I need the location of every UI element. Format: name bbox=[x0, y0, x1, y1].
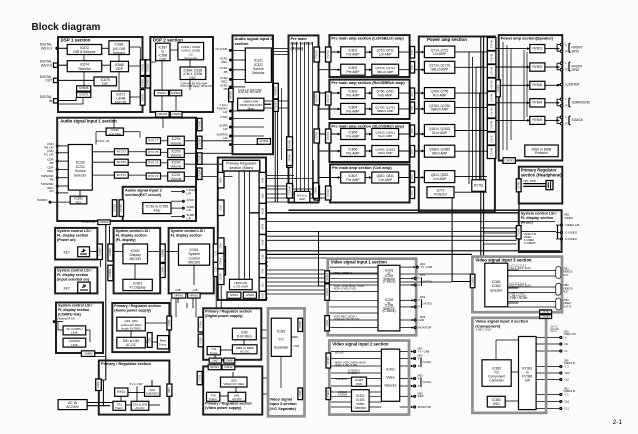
svg-text:CD: CD bbox=[49, 189, 53, 193]
svg-text:CN635: CN635 bbox=[140, 93, 144, 102]
svg-text:HD SIG: HD SIG bbox=[335, 352, 344, 355]
svg-text:DSP: DSP bbox=[160, 57, 167, 61]
svg-text:L+5B T, L+5x7: L+5B T, L+5x7 bbox=[476, 329, 492, 332]
svg-text:FL display section: FL display section bbox=[171, 233, 202, 237]
svg-text:CN741: CN741 bbox=[489, 53, 493, 62]
svg-text:CN281: CN281 bbox=[197, 120, 201, 129]
svg-text:SBLch AMP: SBLch AMP bbox=[431, 68, 448, 72]
svg-text:Y 1: Y 1 bbox=[565, 392, 570, 396]
svg-text:IL/TE A/DR: IL/TE A/DR bbox=[234, 285, 249, 289]
svg-text:IVR204: IVR204 bbox=[157, 112, 167, 116]
svg-text:System control LSI /: System control LSI / bbox=[57, 269, 91, 273]
svg-text:Pre main amp section (Cch amp): Pre main amp section (Cch amp) bbox=[332, 166, 392, 170]
svg-text:System control LSI /: System control LSI / bbox=[58, 304, 92, 308]
svg-text:OSD: OSD bbox=[493, 402, 501, 406]
svg-text:VCR+S/N, HD VID S/V: VCR+S/N, HD VID S/V bbox=[334, 318, 360, 321]
svg-text:Primary Regulator: Primary Regulator bbox=[226, 161, 257, 165]
svg-text:L/R: L/R bbox=[223, 136, 228, 140]
svg-text:CN34: CN34 bbox=[198, 321, 202, 328]
svg-text:Selector: Selector bbox=[74, 173, 87, 177]
svg-text:(VCR2): (VCR2) bbox=[423, 380, 432, 384]
svg-text:Power amp section: Power amp section bbox=[427, 37, 467, 42]
svg-text:NP300: NP300 bbox=[325, 272, 329, 280]
svg-text:CN3: CN3 bbox=[219, 205, 223, 211]
svg-text:CN747: CN747 bbox=[489, 134, 493, 143]
svg-text:Volume: Volume bbox=[170, 165, 181, 169]
svg-text:CN35: CN35 bbox=[198, 337, 202, 344]
svg-text:Pre AMP: Pre AMP bbox=[346, 53, 360, 57]
svg-text:/SL1.2, SW.2, SL/W: /SL1.2, SW.2, SL/W bbox=[510, 267, 532, 270]
svg-text:Selector: Selector bbox=[113, 51, 126, 55]
svg-text:Selector: Selector bbox=[384, 384, 397, 388]
svg-text:RY273: RY273 bbox=[117, 150, 127, 154]
svg-text:SBRch AMP: SBRch AMP bbox=[431, 108, 449, 112]
svg-text:Audio 5V REG: Audio 5V REG bbox=[121, 327, 141, 331]
svg-text:P: P bbox=[418, 376, 420, 380]
svg-text:DSP 2 section: DSP 2 section bbox=[153, 38, 183, 43]
svg-text:P/0: P/0 bbox=[260, 268, 264, 272]
svg-text:DSP C/SR &amp; SPSL/SR: DSP C/SR &amp; SPSL/SR bbox=[181, 85, 212, 88]
svg-text:C38Q: C38Q bbox=[314, 187, 318, 194]
svg-text:L/R: L/R bbox=[187, 208, 191, 212]
svg-text:RY802: RY802 bbox=[532, 65, 542, 69]
svg-text:CN3AR: CN3AR bbox=[287, 186, 291, 195]
svg-text:8 V1 or SW: 8 V1 or SW bbox=[130, 383, 143, 386]
svg-text:TV / CAB: TV / CAB bbox=[421, 265, 433, 269]
svg-text:Selector: Selector bbox=[490, 288, 503, 292]
svg-text:DAC: DAC bbox=[190, 76, 197, 80]
svg-text:MICON: MICON bbox=[129, 257, 141, 261]
svg-text:AC-DC: AC-DC bbox=[126, 343, 137, 347]
svg-text:AC230V: AC230V bbox=[66, 405, 80, 409]
svg-text:NP061: NP061 bbox=[174, 293, 183, 297]
svg-text:CN613: CN613 bbox=[146, 78, 150, 87]
svg-text:3-4B: 3-4B bbox=[192, 289, 197, 292]
svg-text:Trans.: Trans. bbox=[210, 351, 219, 355]
svg-text:MONITOR: MONITOR bbox=[418, 325, 431, 329]
svg-text:Y 2: Y 2 bbox=[565, 364, 570, 368]
svg-text:SL/SL SR, SB L/SB R: SL/SL SR, SB L/SB R bbox=[238, 91, 261, 94]
svg-text:SBRch AMP: SBRch AMP bbox=[377, 109, 394, 113]
svg-text:NP320: NP320 bbox=[229, 91, 233, 99]
svg-text:P: P bbox=[418, 356, 420, 360]
svg-text:(Y Block): (Y Block) bbox=[383, 280, 396, 284]
svg-text:DIT: DIT bbox=[102, 82, 108, 86]
svg-text:L-508: L-508 bbox=[293, 345, 300, 348]
svg-text:P: P bbox=[418, 298, 420, 302]
svg-text:S.BACK: S.BACK bbox=[572, 118, 585, 122]
svg-text:MICON: MICON bbox=[115, 101, 127, 105]
svg-text:Amp: Amp bbox=[153, 209, 160, 213]
svg-text:NP888: NP888 bbox=[160, 249, 164, 257]
svg-text:CN38: CN38 bbox=[298, 390, 302, 397]
svg-text:C467: C467 bbox=[212, 358, 219, 362]
svg-text:CN742: CN742 bbox=[489, 66, 493, 75]
svg-text:IC401: IC401 bbox=[386, 367, 395, 371]
svg-text:SW3: SW3 bbox=[167, 387, 171, 393]
svg-text:RY805: RY805 bbox=[532, 118, 542, 122]
svg-text:(Front): (Front) bbox=[521, 221, 534, 225]
svg-text:(Power on): (Power on) bbox=[57, 238, 76, 242]
svg-text:Audio signal input 1 section: Audio signal input 1 section bbox=[60, 118, 117, 123]
svg-text:SUB REG: SUB REG bbox=[146, 391, 160, 395]
svg-text:Volume: Volume bbox=[170, 154, 181, 158]
svg-text:REC: REC bbox=[221, 60, 227, 64]
svg-text:CN3N: CN3N bbox=[219, 273, 223, 280]
svg-text:/SL1.2, SW.2, SL/W: /SL1.2, SW.2, SL/W bbox=[510, 285, 532, 288]
svg-text:Video signal input 1 section: Video signal input 1 section bbox=[331, 260, 388, 265]
svg-text:Video signal input 3 section: Video signal input 3 section bbox=[475, 257, 532, 262]
svg-text:CN284: CN284 bbox=[197, 169, 201, 178]
svg-text:DSP 1 section: DSP 1 section bbox=[61, 38, 91, 43]
svg-text:D17: D17 bbox=[260, 282, 264, 287]
svg-text:SBLch AMP: SBLch AMP bbox=[377, 70, 393, 74]
svg-text:D10: D10 bbox=[260, 193, 264, 198]
svg-text:VCR+ S VID, S VID: VCR+ S VID, S VID bbox=[335, 364, 357, 367]
svg-text:RY01: RY01 bbox=[117, 390, 125, 394]
svg-text:PB: PB bbox=[224, 70, 228, 74]
svg-text:S.DIG96: S.DIG96 bbox=[338, 393, 348, 396]
svg-text:Volume: Volume bbox=[170, 177, 181, 181]
svg-text:(C Block): (C Block) bbox=[382, 309, 395, 313]
svg-text:CN746: CN746 bbox=[489, 120, 493, 129]
svg-text:S-VIDEO5: S-VIDEO5 bbox=[524, 242, 536, 245]
svg-text:Pre AMP: Pre AMP bbox=[346, 152, 360, 156]
svg-text:CN363: CN363 bbox=[274, 101, 278, 110]
svg-text:CN748: CN748 bbox=[489, 147, 493, 156]
svg-text:Converter: Converter bbox=[184, 56, 197, 60]
svg-text:FL display section: FL display section bbox=[116, 233, 147, 237]
svg-text:Trans.: Trans. bbox=[115, 406, 124, 410]
svg-text:AC-DC: AC-DC bbox=[135, 406, 144, 410]
svg-text:OSD: OSD bbox=[356, 382, 363, 386]
svg-text:amp section: amp section bbox=[291, 42, 314, 46]
svg-text:Pre main amp section (Lch/SBLc: Pre main amp section (Lch/SBLch amp) bbox=[331, 37, 404, 41]
svg-text:3-4&amp;SP L/R: 3-4&amp;SP L/R bbox=[57, 318, 75, 321]
svg-text:C80: C80 bbox=[147, 337, 151, 342]
svg-text:section: section bbox=[235, 41, 250, 46]
svg-text:S-VIDEO: S-VIDEO bbox=[565, 237, 578, 241]
svg-text:VIDEO: VIDEO bbox=[564, 216, 574, 220]
svg-text:TV (CAB): TV (CAB) bbox=[215, 47, 227, 51]
svg-text:CN301: CN301 bbox=[325, 288, 329, 297]
svg-text:C98: C98 bbox=[260, 177, 264, 182]
svg-text:(FL display): (FL display) bbox=[116, 238, 137, 242]
svg-text:Y: Y bbox=[565, 335, 567, 339]
svg-text:Cr: Cr bbox=[565, 349, 568, 353]
svg-text:IVR01: IVR01 bbox=[230, 293, 238, 297]
svg-text:RY801: RY801 bbox=[532, 47, 542, 51]
svg-text:A/D 10M: A/D 10M bbox=[109, 132, 121, 136]
svg-text:RY272: RY272 bbox=[117, 160, 127, 164]
svg-text:Video signal input 2 section: Video signal input 2 section bbox=[332, 341, 389, 346]
svg-text:CN612: CN612 bbox=[146, 63, 150, 72]
svg-text:CN7: CN7 bbox=[410, 148, 414, 154]
svg-text:IVR32: IVR32 bbox=[224, 365, 232, 369]
svg-text:CN402: CN402 bbox=[326, 389, 330, 398]
svg-text:C-VIDEO: C-VIDEO bbox=[565, 230, 578, 234]
svg-text:(Input selected on): (Input selected on) bbox=[57, 277, 90, 281]
svg-text:EQ: EQ bbox=[76, 201, 81, 205]
svg-text:C32: C32 bbox=[213, 266, 217, 271]
svg-text:Video signal: Video signal bbox=[270, 398, 293, 402]
svg-text:Selector: Selector bbox=[354, 406, 367, 410]
svg-text:NP781: NP781 bbox=[119, 204, 123, 212]
svg-text:To NP2 L/R: To NP2 L/R bbox=[82, 221, 95, 224]
svg-text:CN30D: CN30D bbox=[516, 228, 520, 237]
svg-text:Primary / Regulator section: Primary / Regulator section bbox=[114, 304, 161, 308]
svg-text:Cr1: Cr1 bbox=[565, 406, 570, 410]
svg-text:Primary / Regulator section: Primary / Regulator section bbox=[205, 401, 252, 405]
svg-text:FL display section: FL display section bbox=[58, 308, 89, 312]
svg-text:D.VIDEO 7: D.VIDEO 7 bbox=[348, 372, 360, 375]
svg-text:Lch AMP: Lch AMP bbox=[379, 53, 392, 57]
svg-text:SP#2: SP#2 bbox=[572, 68, 580, 72]
svg-text:RY0.77: RY0.77 bbox=[148, 139, 158, 143]
svg-text:CN743: CN743 bbox=[505, 158, 514, 162]
svg-text:J451: J451 bbox=[420, 273, 426, 277]
svg-text:NP401: NP401 bbox=[326, 356, 330, 364]
svg-text:CN7: CN7 bbox=[410, 105, 414, 111]
svg-text:P: P bbox=[418, 283, 420, 287]
svg-text:R: R bbox=[566, 68, 568, 72]
svg-text:CN370: CN370 bbox=[79, 93, 88, 97]
svg-text:section(EXT circuit): section(EXT circuit) bbox=[125, 193, 162, 197]
svg-text:Pre AMP: Pre AMP bbox=[346, 70, 360, 74]
svg-text:CN7: CN7 bbox=[410, 128, 414, 134]
svg-text:2-1: 2-1 bbox=[613, 419, 623, 426]
svg-text:PB: PB bbox=[50, 161, 54, 165]
svg-text:KEY: KEY bbox=[64, 251, 71, 255]
svg-text:CN7: CN7 bbox=[410, 91, 414, 97]
svg-text:L/R: L/R bbox=[187, 217, 191, 221]
svg-text:R: R bbox=[566, 104, 568, 108]
svg-text:CN321: CN321 bbox=[259, 139, 268, 143]
svg-text:(M) In 3: (M) In 3 bbox=[41, 46, 52, 50]
svg-text:CN203: CN203 bbox=[172, 112, 181, 116]
svg-text:CN713: CN713 bbox=[326, 50, 330, 59]
svg-text:CN7: CN7 bbox=[410, 64, 414, 70]
svg-text:Pre AMP: Pre AMP bbox=[346, 109, 360, 113]
svg-text:C38: C38 bbox=[260, 254, 264, 259]
svg-text:CN704: CN704 bbox=[314, 94, 318, 103]
svg-text:NP3W: NP3W bbox=[287, 154, 291, 162]
svg-text:D-6V REG: D-6V REG bbox=[237, 334, 253, 338]
svg-text:Pre main: Pre main bbox=[291, 37, 308, 41]
svg-text:F,C L/R: F,C L/R bbox=[44, 153, 54, 157]
svg-text:Pre AMP: Pre AMP bbox=[346, 135, 360, 139]
svg-text:CN880: CN880 bbox=[108, 268, 112, 277]
svg-text:FL display section: FL display section bbox=[57, 273, 88, 277]
svg-text:FL display section: FL display section bbox=[57, 233, 88, 237]
svg-text:P: P bbox=[418, 364, 420, 368]
svg-text:S.p5B T, SL+5B7: S.p5B T, SL+5B7 bbox=[510, 297, 529, 300]
svg-text:C3A2: C3A2 bbox=[219, 257, 223, 264]
svg-text:P: P bbox=[418, 305, 420, 309]
svg-text:System control LSI /: System control LSI / bbox=[521, 212, 557, 216]
svg-text:Lch AMP: Lch AMP bbox=[433, 52, 446, 56]
svg-text:SRch AMP: SRch AMP bbox=[432, 152, 447, 156]
svg-text:CN781: CN781 bbox=[112, 204, 116, 213]
svg-text:FL Display: FL Display bbox=[130, 286, 146, 290]
svg-text:RY806: RY806 bbox=[532, 83, 542, 87]
svg-text:CN381: CN381 bbox=[470, 276, 474, 285]
svg-text:DIR 8 Selector: DIR 8 Selector bbox=[73, 50, 96, 54]
svg-text:REC: REC bbox=[47, 169, 53, 173]
svg-text:RY2/W: RY2/W bbox=[287, 139, 291, 148]
svg-text:CN282: CN282 bbox=[197, 138, 201, 147]
svg-text:IVR38: IVR38 bbox=[298, 321, 302, 329]
svg-text:Trans.: Trans. bbox=[159, 343, 168, 347]
svg-text:(M) In 6: (M) In 6 bbox=[41, 63, 52, 67]
svg-text:Trans.: Trans. bbox=[209, 397, 218, 401]
svg-text:RY804: RY804 bbox=[532, 101, 542, 105]
svg-text:VIDEO 6V REG: VIDEO 6V REG bbox=[224, 382, 245, 386]
svg-text:section (Main): section (Main) bbox=[230, 166, 253, 170]
svg-text:RY0.76: RY0.76 bbox=[148, 150, 158, 154]
svg-text:DAD: DAD bbox=[418, 318, 424, 322]
svg-text:CN743: CN743 bbox=[489, 80, 493, 89]
svg-text:2-4B: 2-4B bbox=[175, 289, 180, 292]
svg-text:(Y/C Separate): (Y/C Separate) bbox=[270, 407, 297, 411]
svg-text:Block diagram: Block diagram bbox=[32, 22, 101, 33]
svg-text:NP/W: NP/W bbox=[516, 181, 520, 188]
svg-text:CN610: CN610 bbox=[140, 78, 144, 87]
svg-text:L/R: L/R bbox=[223, 110, 228, 114]
svg-text:Rch AMP: Rch AMP bbox=[379, 93, 392, 97]
svg-text:Selector: Selector bbox=[252, 71, 265, 75]
svg-text:CN382: CN382 bbox=[541, 310, 550, 314]
svg-text:IN D: IN D bbox=[563, 273, 568, 277]
svg-text:Y/C: Y/C bbox=[278, 338, 284, 342]
svg-text:Selector: Selector bbox=[78, 67, 91, 71]
svg-text:IVR636: IVR636 bbox=[79, 86, 89, 90]
svg-text:CN889: CN889 bbox=[160, 266, 164, 275]
svg-text:Separator: Separator bbox=[274, 346, 289, 350]
svg-text:C/SW: C/SW bbox=[220, 115, 228, 119]
svg-text:HDMI, VIDEO H: HDMI, VIDEO H bbox=[334, 272, 352, 275]
svg-text:CN8: CN8 bbox=[260, 239, 264, 245]
svg-text:CN715: CN715 bbox=[326, 131, 330, 140]
svg-text:IC381: IC381 bbox=[277, 329, 286, 333]
svg-text:CENTER: CENTER bbox=[567, 82, 581, 86]
svg-text:RY271: RY271 bbox=[117, 173, 127, 177]
svg-text:IN D: IN D bbox=[563, 290, 568, 294]
svg-text:MONITOR: MONITOR bbox=[418, 405, 431, 409]
svg-text:CN384: CN384 bbox=[541, 314, 550, 318]
svg-text:CN80: CN80 bbox=[167, 319, 171, 326]
svg-text:OUT D: OUT D bbox=[563, 305, 571, 309]
svg-text:S.DIG26 R: S.DIG26 R bbox=[336, 378, 348, 381]
svg-text:OUT: OUT bbox=[260, 292, 264, 298]
svg-text:KEY: KEY bbox=[64, 287, 71, 291]
svg-text:System control LSI /: System control LSI / bbox=[57, 229, 91, 233]
svg-text:VCR+ S VID, S VID: VCR+ S VID, S VID bbox=[334, 287, 356, 290]
svg-text:Converter: Converter bbox=[489, 379, 504, 383]
svg-text:(Video power supply): (Video power supply) bbox=[205, 406, 242, 410]
svg-text:Rch AMP: Rch AMP bbox=[433, 93, 446, 97]
svg-text:CN882: CN882 bbox=[84, 351, 93, 355]
svg-text:R: R bbox=[566, 49, 568, 53]
svg-text:NP062: NP062 bbox=[189, 293, 198, 297]
svg-text:Cb1: Cb1 bbox=[565, 399, 571, 403]
svg-text:UNR3: UNR3 bbox=[496, 84, 500, 92]
svg-text:CN202: CN202 bbox=[99, 220, 108, 224]
svg-text:W/D: W/D bbox=[219, 178, 223, 183]
svg-text:P: P bbox=[418, 384, 420, 388]
svg-text:CN705: CN705 bbox=[314, 131, 318, 140]
svg-text:NP321: NP321 bbox=[210, 365, 219, 369]
svg-text:CN7: CN7 bbox=[410, 49, 414, 55]
svg-text:P: P bbox=[418, 276, 420, 280]
svg-text:Primary / Regulator section: Primary / Regulator section bbox=[205, 309, 252, 313]
svg-text:Cr2: Cr2 bbox=[565, 377, 570, 381]
svg-text:Pre AMP: Pre AMP bbox=[346, 178, 360, 182]
svg-text:R: R bbox=[566, 121, 568, 125]
svg-text:C3A: C3A bbox=[219, 243, 223, 248]
svg-text:Video: Video bbox=[386, 375, 395, 379]
svg-text:SRch AMP: SRch AMP bbox=[378, 151, 393, 155]
svg-text:CN716: CN716 bbox=[326, 188, 330, 197]
svg-text:CN703: CN703 bbox=[314, 50, 318, 59]
svg-text:Pre main amp section (Rch/SBRc: Pre main amp section (Rch/SBRch amp) bbox=[331, 81, 405, 85]
svg-text:C/SW: C/SW bbox=[187, 198, 195, 202]
svg-text:TU(M)A: TU(M)A bbox=[98, 247, 102, 256]
svg-text:RY0.74: RY0.74 bbox=[148, 174, 158, 178]
svg-text:C31: C31 bbox=[213, 250, 217, 255]
svg-text:Audio signal input 2: Audio signal input 2 bbox=[125, 188, 162, 192]
svg-text:PB: PB bbox=[224, 87, 228, 91]
svg-text:Pre AMP: Pre AMP bbox=[346, 94, 360, 98]
svg-text:SLch AMP: SLch AMP bbox=[378, 134, 392, 138]
svg-text:SP#1: SP#1 bbox=[572, 50, 580, 54]
svg-text:LINK: LINK bbox=[71, 331, 78, 335]
svg-text:(COMPU link): (COMPU link) bbox=[58, 312, 82, 316]
svg-text:AC-DC: AC-DC bbox=[232, 397, 242, 401]
svg-text:DSP: DSP bbox=[116, 67, 124, 71]
svg-text:Power amp section(Speaker): Power amp section(Speaker) bbox=[501, 37, 554, 41]
svg-text:(Digital power supply): (Digital power supply) bbox=[205, 314, 243, 318]
svg-text:(Relay): (Relay) bbox=[291, 46, 305, 50]
svg-text:MICON: MICON bbox=[188, 261, 200, 265]
svg-text:CN745: CN745 bbox=[489, 107, 493, 116]
svg-text:Cb2: Cb2 bbox=[565, 371, 571, 375]
svg-text:CN32: CN32 bbox=[197, 374, 201, 381]
svg-text:RY0.75: RY0.75 bbox=[148, 161, 158, 165]
svg-text:CN7: CN7 bbox=[410, 174, 414, 180]
svg-text:L/R: L/R bbox=[187, 192, 191, 196]
svg-text:IVR622: IVR622 bbox=[171, 91, 181, 95]
svg-text:Mute: Mute bbox=[248, 107, 255, 111]
svg-text:SLch AMP: SLch AMP bbox=[432, 131, 447, 135]
svg-text:CN714: CN714 bbox=[326, 94, 330, 103]
svg-text:(VCR2): (VCR2) bbox=[423, 301, 432, 305]
svg-text:CN621: CN621 bbox=[157, 91, 166, 95]
svg-text:SHP: SHP bbox=[299, 197, 305, 201]
svg-text:C468: C468 bbox=[226, 358, 233, 362]
svg-text:(Audio power supply): (Audio power supply) bbox=[114, 309, 151, 313]
svg-text:C302: C302 bbox=[325, 320, 329, 327]
svg-text:System control LSI /: System control LSI / bbox=[116, 229, 150, 233]
svg-text:PB: PB bbox=[50, 178, 54, 182]
svg-text:CN7: CN7 bbox=[410, 190, 414, 196]
svg-text:Cb: Cb bbox=[565, 342, 569, 346]
svg-text:FL display section: FL display section bbox=[521, 216, 554, 220]
svg-text:DAD: DAD bbox=[418, 394, 424, 398]
svg-text:Volume: Volume bbox=[170, 141, 181, 145]
svg-text:IVR02: IVR02 bbox=[246, 293, 254, 297]
svg-text:AC-DC: AC-DC bbox=[240, 349, 249, 353]
